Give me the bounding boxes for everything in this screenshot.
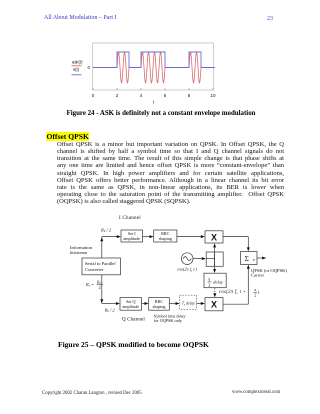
wire: serial-to-parallel up to I branch (102, 237, 118, 258)
wire: serial-to-parallel down to Q branch (102, 275, 117, 304)
svg-text:Ts delay: Ts delay (182, 301, 195, 307)
pi/2 delay box (204, 273, 226, 288)
body paragraph (57, 141, 284, 205)
svg-text:2: 2 (254, 293, 256, 297)
wire: delay to Q multiplier (196, 303, 202, 305)
svg-text:s(t): s(t) (73, 67, 80, 72)
wire: oscillator to splitter (193, 258, 203, 260)
svg-text:ask(t): ask(t) (72, 60, 83, 65)
svg-text:8: 8 (188, 93, 191, 98)
svg-text:amplitude: amplitude (122, 304, 139, 309)
footer url (232, 390, 280, 395)
svg-text:t: t (153, 100, 155, 105)
svg-text:cos(2π fc t ): cos(2π fc t ) (177, 267, 197, 273)
summer box (241, 252, 258, 265)
x tick marks (93, 88, 213, 90)
svg-text:π: π (254, 288, 256, 292)
section heading Offset QPSK (46, 132, 89, 141)
svg-text:Q Channel: Q Channel (122, 318, 145, 323)
summer output arrow (257, 257, 264, 259)
wire: RRC to I multiplier (177, 236, 202, 238)
svg-text:Serial to Parallel: Serial to Parallel (85, 261, 116, 266)
svg-text:Rs =: Rs = (85, 282, 94, 288)
figure 24 caption (1, 110, 320, 117)
wire: I multiplier to summer (223, 237, 248, 249)
wire: Set Q to RRC (142, 303, 146, 305)
serial to parallel converter box (82, 258, 121, 275)
block diagram figure 25 (0, 210, 320, 338)
svg-text:0: 0 (88, 65, 91, 70)
svg-text:4: 4 (140, 93, 143, 98)
svg-text:2: 2 (99, 285, 101, 290)
header left (44, 15, 117, 21)
arrowhead into Set I box (117, 235, 121, 238)
box: Set I amplitude (121, 230, 143, 242)
legend ask(t) red key line (72, 65, 82, 67)
svg-text:Σ: Σ (245, 255, 249, 263)
wire: Q multiplier to summer (223, 268, 248, 305)
svg-text:X: X (211, 232, 217, 242)
svg-text:6: 6 (164, 93, 167, 98)
svg-text:Rb / 2: Rb / 2 (100, 227, 112, 233)
svg-text:Converter: Converter (85, 267, 104, 272)
dashed box: Ts/2 delay (180, 295, 197, 309)
svg-text:0: 0 (92, 93, 95, 98)
box: RRC shaping (Q) (149, 298, 170, 311)
svg-text:): ) (257, 290, 260, 295)
plot frame (93, 43, 214, 90)
arrowhead up into I corner (100, 237, 103, 241)
multiplier X (I channel) (205, 231, 223, 243)
legend s(t) blue key line (72, 74, 82, 76)
svg-text:Carrier: Carrier (251, 273, 264, 278)
multiplier X (Q channel) (205, 298, 223, 311)
svg-text:I Channel: I Channel (119, 216, 141, 221)
svg-text:bitstream: bitstream (70, 250, 88, 255)
figure 25 caption (58, 340, 209, 349)
header page number (267, 16, 273, 22)
s(t) blue square wave trace (93, 52, 215, 68)
svg-text:Rb / 2: Rb / 2 (104, 307, 116, 313)
splitter junction box (206, 252, 223, 266)
svg-text:for OQPSK only: for OQPSK only (154, 318, 183, 323)
ask(t) red sinusoid trace (93, 52, 215, 83)
svg-text:2: 2 (208, 283, 210, 288)
wire: Set I to RRC (143, 236, 151, 238)
svg-text:shaping: shaping (159, 236, 173, 241)
chart figure 24 (0, 0, 320, 110)
svg-text:E: E (253, 258, 255, 262)
footer copyright (42, 391, 142, 396)
svg-text:shaping: shaping (152, 304, 166, 309)
wire: carrier up into I multiplier (214, 247, 216, 267)
svg-text:2: 2 (116, 93, 119, 98)
svg-text:amplitude: amplitude (123, 236, 140, 241)
wire: RRC Q to delay (169, 303, 177, 305)
svg-text:cos(2π fc t +: cos(2π fc t + (219, 290, 247, 295)
dashed wire: pi/2 delay to Q multiplier (214, 288, 216, 294)
box: RRC shaping (I) (154, 230, 177, 242)
svg-text:10: 10 (210, 93, 216, 98)
oscillator circle (181, 253, 193, 265)
box: Set Q amplitude (120, 298, 142, 311)
x tick labels (92, 93, 216, 98)
wire: carrier down into pi/2 delay (214, 266, 216, 269)
svg-text:X: X (211, 300, 217, 310)
svg-text:delay: delay (213, 279, 223, 284)
svg-text:π: π (208, 277, 211, 282)
